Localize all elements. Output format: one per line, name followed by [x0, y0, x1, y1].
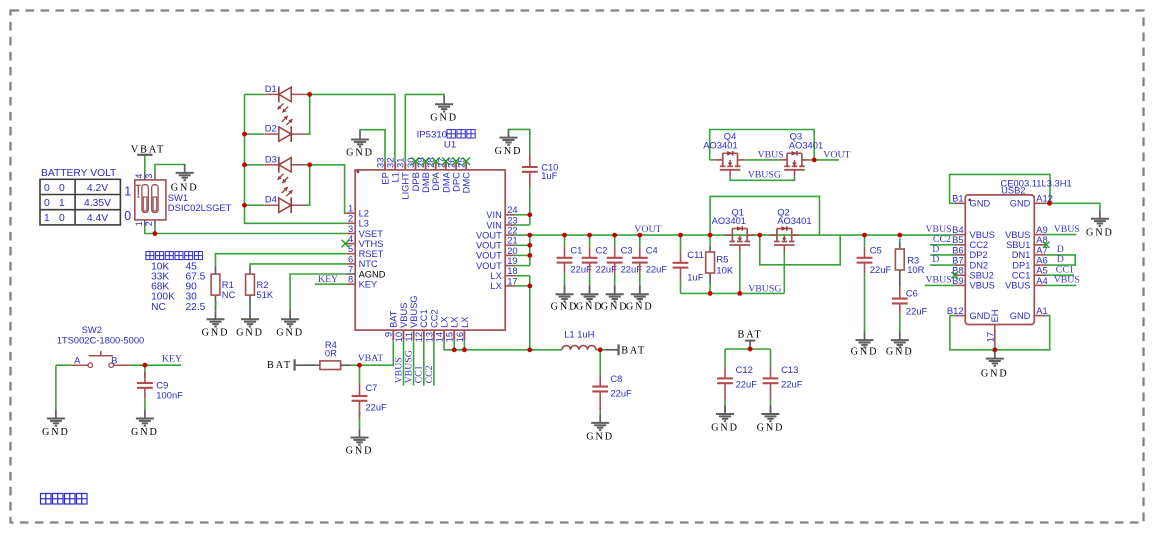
- svg-text:L2: L2: [359, 209, 369, 219]
- svg-text:DMA: DMA: [441, 171, 451, 192]
- svg-text:51K: 51K: [257, 289, 274, 300]
- svg-text:DPB: DPB: [411, 172, 421, 191]
- svg-text:GND: GND: [586, 432, 614, 443]
- svg-text:VOUT: VOUT: [476, 230, 502, 240]
- svg-text:DPA: DPA: [431, 171, 441, 190]
- svg-text:GND: GND: [970, 311, 991, 321]
- svg-text:B12: B12: [947, 305, 964, 316]
- svg-text:GND: GND: [1010, 311, 1031, 321]
- svg-text:GND: GND: [276, 328, 304, 339]
- svg-text:A1: A1: [1036, 305, 1047, 316]
- svg-text:DSIC02LSGET: DSIC02LSGET: [168, 202, 232, 213]
- svg-text:VBUSG: VBUSG: [748, 169, 781, 180]
- svg-text:VSET: VSET: [359, 229, 384, 239]
- svg-text:D3: D3: [265, 153, 277, 164]
- svg-text:17: 17: [984, 332, 995, 342]
- svg-text:0: 0: [44, 183, 50, 194]
- svg-text:100nF: 100nF: [156, 389, 183, 400]
- svg-text:22.5: 22.5: [186, 302, 206, 313]
- svg-text:DP2: DP2: [970, 250, 988, 260]
- svg-text:16: 16: [454, 332, 465, 342]
- svg-text:A: A: [74, 355, 81, 366]
- svg-text:GND: GND: [757, 422, 785, 433]
- svg-text:VBUS: VBUS: [758, 150, 784, 161]
- svg-text:NTC: NTC: [359, 259, 378, 269]
- svg-text:10R: 10R: [907, 264, 924, 275]
- svg-text:C13: C13: [781, 364, 798, 375]
- svg-text:4.2V: 4.2V: [87, 183, 108, 194]
- svg-text:GND: GND: [711, 422, 739, 433]
- svg-text:SW2: SW2: [82, 324, 102, 335]
- svg-text:22uF: 22uF: [906, 306, 928, 317]
- svg-text:D4: D4: [265, 194, 277, 205]
- svg-text:AO3401: AO3401: [703, 140, 737, 151]
- svg-text:GND: GND: [551, 301, 579, 312]
- svg-text:GND: GND: [346, 446, 374, 457]
- svg-text:VBUS: VBUS: [925, 274, 951, 285]
- svg-text:VBAT: VBAT: [358, 353, 384, 364]
- svg-text:C5: C5: [870, 244, 882, 255]
- svg-text:VIN: VIN: [486, 210, 502, 220]
- svg-text:22uF: 22uF: [870, 264, 892, 275]
- svg-text:CC1: CC1: [419, 309, 429, 328]
- svg-text:U1: U1: [444, 139, 456, 150]
- svg-text:CC2: CC2: [429, 309, 439, 328]
- svg-text:22uF: 22uF: [570, 263, 592, 274]
- svg-text:C6: C6: [906, 288, 918, 299]
- svg-text:LX: LX: [490, 281, 501, 291]
- svg-text:CC1: CC1: [1012, 271, 1031, 281]
- svg-text:DMC: DMC: [462, 172, 472, 193]
- svg-text:B: B: [111, 355, 117, 366]
- svg-text:22uF: 22uF: [621, 263, 643, 274]
- svg-text:C2: C2: [596, 244, 608, 255]
- svg-text:1: 1: [124, 184, 131, 198]
- svg-text:A4: A4: [1036, 275, 1047, 286]
- svg-text:D: D: [932, 254, 939, 265]
- svg-text:4.35V: 4.35V: [84, 198, 111, 209]
- svg-text:0: 0: [44, 198, 50, 209]
- svg-text:VBUSG: VBUSG: [748, 284, 781, 295]
- svg-text:C4: C4: [646, 244, 658, 255]
- svg-text:LX: LX: [440, 317, 450, 328]
- svg-text:GND: GND: [970, 199, 991, 209]
- svg-text:GND: GND: [171, 182, 199, 193]
- svg-text:AO3401: AO3401: [777, 215, 811, 226]
- svg-text:GND: GND: [1086, 228, 1114, 239]
- svg-text:22uF: 22uF: [646, 263, 668, 274]
- svg-text:1: 1: [134, 221, 144, 226]
- svg-text:GND: GND: [346, 147, 374, 158]
- svg-text:1: 1: [44, 213, 50, 224]
- svg-text:0: 0: [59, 213, 65, 224]
- svg-text:EH: EH: [990, 309, 1000, 322]
- svg-text:LX: LX: [460, 317, 470, 328]
- svg-text:BATTERY VOLT: BATTERY VOLT: [41, 168, 117, 179]
- svg-text:GND: GND: [131, 427, 159, 438]
- svg-text:1TS002C-1800-5000: 1TS002C-1800-5000: [57, 335, 145, 346]
- svg-text:VOUT: VOUT: [476, 241, 502, 251]
- svg-text:KEY: KEY: [162, 354, 182, 365]
- svg-text:C8: C8: [610, 373, 622, 384]
- svg-text:LX: LX: [490, 271, 501, 281]
- svg-text:GND: GND: [42, 427, 70, 438]
- svg-text:VBUS: VBUS: [970, 281, 995, 291]
- svg-text:DN2: DN2: [970, 260, 989, 270]
- svg-text:NC: NC: [222, 289, 236, 300]
- svg-text:GND: GND: [430, 113, 458, 124]
- svg-text:VBUS: VBUS: [1005, 281, 1030, 291]
- svg-text:0: 0: [59, 183, 65, 194]
- svg-text:GND: GND: [236, 328, 264, 339]
- svg-text:CC2: CC2: [424, 365, 435, 383]
- svg-text:VOUT: VOUT: [823, 150, 850, 161]
- svg-text:USB2: USB2: [1001, 185, 1026, 196]
- svg-text:GND: GND: [576, 301, 604, 312]
- svg-text:BAT: BAT: [267, 360, 292, 371]
- svg-text:VBUS: VBUS: [1005, 230, 1030, 240]
- svg-text:VIN: VIN: [486, 220, 502, 230]
- svg-text:VOUT: VOUT: [476, 261, 502, 271]
- svg-text:1uF: 1uF: [541, 170, 557, 181]
- svg-text:LX: LX: [450, 317, 460, 328]
- svg-text:AO3401: AO3401: [712, 215, 746, 226]
- svg-text:22uF: 22uF: [610, 387, 632, 398]
- svg-text:AO3401: AO3401: [789, 140, 823, 151]
- svg-text:C12: C12: [736, 364, 753, 375]
- svg-text:C1: C1: [570, 244, 582, 255]
- svg-text:B1: B1: [952, 193, 963, 204]
- svg-text:8: 8: [348, 274, 353, 285]
- svg-text:17: 17: [507, 275, 517, 286]
- svg-text:GND: GND: [601, 301, 629, 312]
- svg-text:CC2: CC2: [970, 240, 989, 250]
- svg-text:10K: 10K: [716, 265, 733, 276]
- svg-text:1uF: 1uF: [687, 271, 703, 282]
- svg-text:VBUS: VBUS: [1054, 274, 1080, 285]
- svg-text:GND: GND: [851, 346, 879, 357]
- svg-text:L1: L1: [391, 172, 401, 182]
- svg-text:VBUS: VBUS: [399, 303, 409, 328]
- svg-text:DPC: DPC: [452, 172, 462, 192]
- svg-text:RSET: RSET: [359, 249, 384, 259]
- svg-text:GND: GND: [495, 146, 523, 157]
- svg-text:C7: C7: [365, 382, 377, 393]
- svg-text:GND: GND: [1010, 199, 1031, 209]
- svg-text:4.4V: 4.4V: [87, 213, 108, 224]
- svg-text:KEY: KEY: [318, 274, 338, 285]
- svg-text:2: 2: [144, 221, 154, 226]
- svg-text:IP5310: IP5310: [417, 130, 447, 141]
- svg-text:BAT: BAT: [621, 346, 646, 357]
- svg-text:BAT: BAT: [738, 330, 763, 341]
- svg-text:GND: GND: [202, 328, 230, 339]
- svg-text:0R: 0R: [325, 347, 337, 358]
- svg-text:GND: GND: [981, 368, 1009, 379]
- svg-text:L1 1uH: L1 1uH: [564, 329, 594, 340]
- svg-text:VBUSG: VBUSG: [409, 295, 419, 328]
- svg-text:22uF: 22uF: [736, 379, 758, 390]
- svg-text:22uF: 22uF: [596, 263, 618, 274]
- svg-text:4: 4: [134, 174, 144, 179]
- svg-text:DN1: DN1: [1012, 250, 1031, 260]
- svg-text:R5: R5: [716, 254, 728, 265]
- svg-text:GND: GND: [886, 346, 914, 357]
- svg-text:VBUS: VBUS: [970, 230, 995, 240]
- svg-text:NC: NC: [151, 302, 166, 313]
- svg-text:0: 0: [124, 209, 131, 223]
- svg-text:DMB: DMB: [421, 172, 431, 193]
- svg-text:VOUT: VOUT: [476, 251, 502, 261]
- svg-text:L3: L3: [359, 219, 369, 229]
- svg-text:DP1: DP1: [1012, 260, 1030, 270]
- svg-text:D2: D2: [265, 123, 277, 134]
- svg-text:SBU1: SBU1: [1006, 240, 1030, 250]
- svg-text:C3: C3: [621, 244, 633, 255]
- svg-text:VTHS: VTHS: [359, 239, 384, 249]
- svg-text:LIGHT: LIGHT: [401, 172, 411, 200]
- svg-text:22uF: 22uF: [365, 402, 387, 413]
- svg-text:C11: C11: [687, 249, 704, 260]
- svg-text:KEY: KEY: [359, 280, 378, 290]
- svg-text:SBU2: SBU2: [970, 271, 994, 281]
- svg-text:3: 3: [144, 174, 154, 179]
- svg-text:1: 1: [59, 198, 65, 209]
- svg-text:GND: GND: [626, 301, 654, 312]
- svg-text:22uF: 22uF: [781, 379, 803, 390]
- svg-text:D1: D1: [265, 83, 277, 94]
- svg-text:EP: EP: [380, 172, 390, 184]
- svg-text:VBUS: VBUS: [1054, 224, 1080, 235]
- svg-text:BAT: BAT: [389, 310, 399, 328]
- svg-text:AGND: AGND: [359, 269, 386, 279]
